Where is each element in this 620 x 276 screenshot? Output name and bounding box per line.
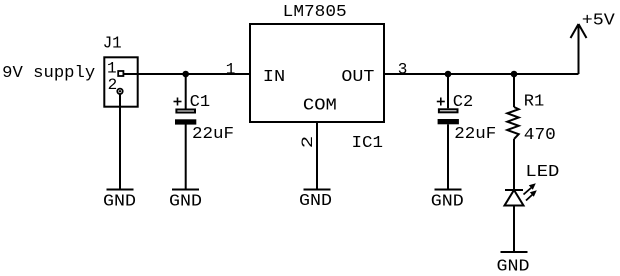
wire J1 pin1 to IC1 IN xyxy=(124,73,250,75)
svg-text:1: 1 xyxy=(107,60,117,78)
svg-text:22uF: 22uF xyxy=(454,125,496,144)
capacitor C2 top lead wire xyxy=(447,74,449,108)
svg-text:GND: GND xyxy=(431,193,464,212)
svg-text:2: 2 xyxy=(108,76,118,94)
wire J1 pin 2 to ground xyxy=(119,95,121,190)
junction node input net at C1 xyxy=(182,71,189,78)
svg-text:LM7805: LM7805 xyxy=(283,3,347,22)
capacitor C2 xyxy=(437,98,459,125)
svg-text:GND: GND xyxy=(497,258,530,276)
LED light arrow 2 xyxy=(526,190,537,200)
ground under IC1 xyxy=(299,190,332,212)
wire LED to ground xyxy=(513,206,515,252)
ground under C2 xyxy=(431,190,464,212)
J1 pin 1 square pad xyxy=(118,71,123,76)
svg-text:C1: C1 xyxy=(190,93,211,112)
svg-text:C2: C2 xyxy=(453,93,474,112)
junction node output net at R1 xyxy=(511,71,518,78)
svg-text:J1: J1 xyxy=(103,35,122,54)
svg-text:COM: COM xyxy=(303,96,337,115)
svg-text:470: 470 xyxy=(524,126,556,145)
resistor R1 xyxy=(507,107,518,139)
svg-text:R1: R1 xyxy=(524,93,545,112)
capacitor C1 xyxy=(174,98,197,125)
regulator IC1 body xyxy=(250,24,384,122)
capacitor C2 bottom lead wire xyxy=(447,124,449,189)
wire R1 to LED xyxy=(513,139,515,189)
wire IC1 OUT to +5V corner xyxy=(384,73,579,75)
svg-text:GND: GND xyxy=(103,193,136,212)
resistor R1 top lead wire xyxy=(513,74,515,107)
svg-text:22uF: 22uF xyxy=(192,125,234,144)
svg-text:3: 3 xyxy=(398,60,408,78)
svg-text:IN: IN xyxy=(263,68,285,87)
svg-text:1: 1 xyxy=(226,60,236,78)
connector J1 body xyxy=(104,57,137,106)
svg-text:9V supply: 9V supply xyxy=(2,64,95,83)
capacitor C1 top lead wire xyxy=(185,74,187,109)
power symbol +5V arrow xyxy=(571,24,587,38)
capacitor C1 bottom lead wire xyxy=(185,125,187,190)
J1 pin 2 round pad xyxy=(117,89,122,94)
svg-text:LED: LED xyxy=(525,163,559,182)
wire +5V riser xyxy=(578,25,580,74)
ground under LED xyxy=(497,252,530,276)
svg-text:GND: GND xyxy=(169,193,202,212)
LED light arrow 1 xyxy=(524,183,536,194)
svg-text:IC1: IC1 xyxy=(352,134,384,153)
ground under C1 xyxy=(169,190,202,212)
svg-text:OUT: OUT xyxy=(341,68,374,87)
wire IC1 COM pin 2 to ground xyxy=(316,122,318,189)
junction node output net at C2 xyxy=(445,71,452,78)
LED triangle xyxy=(505,190,524,206)
svg-text:+5V: +5V xyxy=(582,11,616,30)
LED cathode bar xyxy=(505,189,523,191)
svg-text:2: 2 xyxy=(299,136,317,149)
ground under J1 xyxy=(103,190,136,212)
svg-text:GND: GND xyxy=(299,192,332,211)
